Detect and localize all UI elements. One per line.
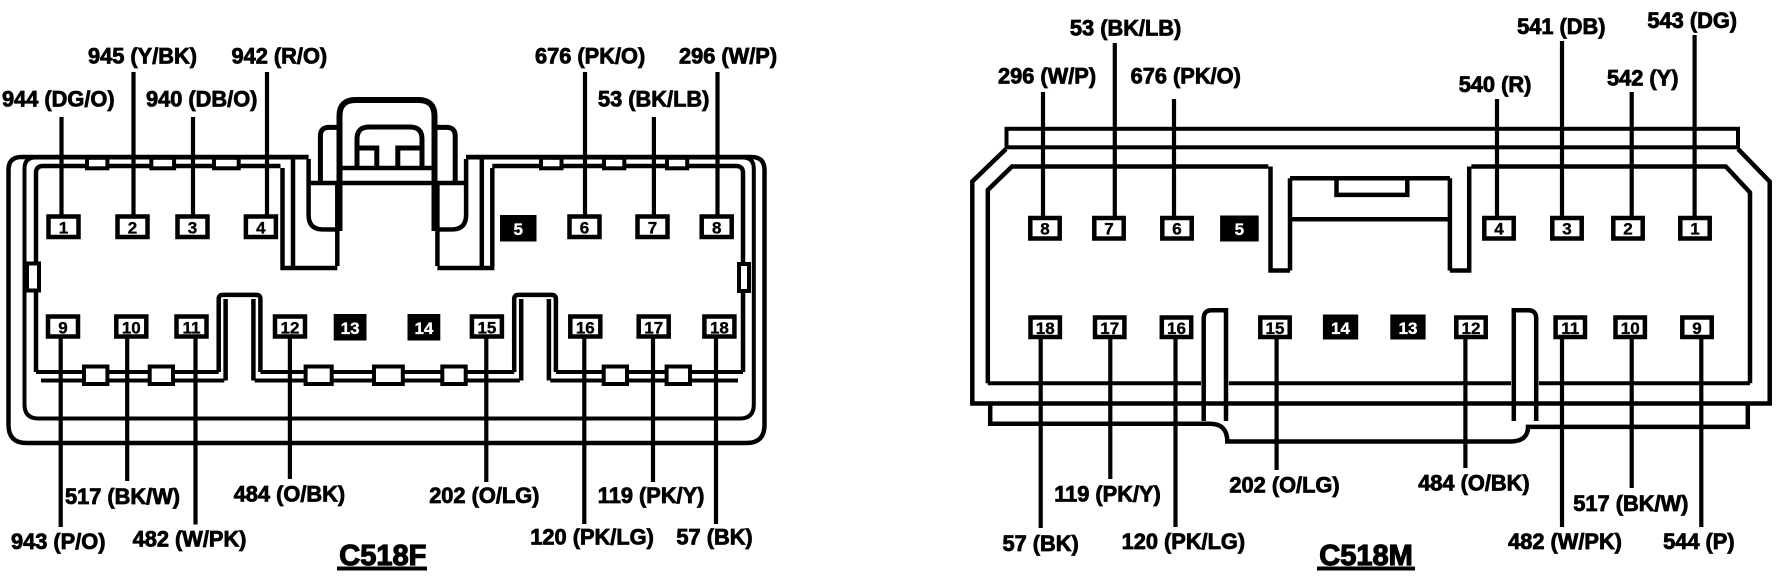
svg-text:14: 14	[414, 319, 433, 338]
svg-text:16: 16	[576, 319, 595, 338]
C518F pin 12	[275, 317, 305, 338]
svg-text:120 (PK/LG): 120 (PK/LG)	[530, 525, 654, 550]
C518F latch lower base line	[311, 181, 465, 186]
svg-text:1: 1	[59, 219, 68, 238]
C518F cavity bottom lower line	[41, 379, 738, 383]
svg-text:540 (R): 540 (R)	[1459, 72, 1532, 97]
label 119 (PK/Y) right	[1054, 482, 1161, 507]
C518M pin 5 (plugged)	[1220, 216, 1259, 242]
label 944 (DG/O)	[2, 87, 115, 112]
C518F right latch channel	[437, 159, 494, 268]
svg-text:18: 18	[1036, 319, 1055, 338]
C518F pin 7	[638, 217, 668, 238]
svg-text:202 (O/LG): 202 (O/LG)	[1229, 473, 1339, 498]
svg-text:482 (W/PK): 482 (W/PK)	[1508, 529, 1622, 554]
C518F pin 5 (plugged)	[500, 215, 537, 242]
wire 53 to C518M pin 7	[1113, 43, 1117, 220]
svg-text:296 (W/P): 296 (W/P)	[679, 43, 777, 68]
svg-text:11: 11	[183, 319, 201, 338]
svg-text:2: 2	[128, 219, 137, 238]
wire 484 to C518F pin 12	[288, 335, 292, 479]
svg-text:17: 17	[644, 319, 663, 338]
label 57 (BK) right	[1003, 531, 1079, 556]
C518F pin 17	[639, 317, 669, 338]
C518F pin 4	[246, 217, 276, 238]
C518F pin 2	[118, 217, 148, 238]
svg-text:12: 12	[1462, 319, 1481, 338]
label 945 (Y/BK)	[88, 43, 197, 68]
svg-text:202 (O/LG): 202 (O/LG)	[429, 483, 539, 508]
wire 944 to C518F pin 1	[59, 117, 63, 218]
label 484 (O/BK) left	[234, 482, 345, 507]
label 544 (P)	[1663, 529, 1734, 554]
label 676 (PK/O) left	[535, 43, 645, 68]
C518F latch upper base line	[340, 166, 435, 171]
label 296 (W/P) right	[998, 63, 1096, 88]
wire 119 to C518F pin 17	[651, 335, 655, 482]
C518M pin 17	[1095, 318, 1124, 339]
C518F pin 14 (plugged)	[408, 314, 441, 341]
C518F pin 15	[472, 317, 502, 338]
C518F bottom tab 7	[667, 367, 690, 385]
svg-text:14: 14	[1331, 319, 1350, 338]
connector C518M top bar	[1007, 129, 1739, 148]
svg-text:53 (BK/LB): 53 (BK/LB)	[1070, 15, 1181, 40]
label 942 (R/O)	[232, 43, 328, 68]
svg-text:7: 7	[1104, 220, 1113, 239]
svg-text:3: 3	[188, 219, 197, 238]
wire 57 to C518F pin 18	[714, 335, 718, 524]
C518F pin 8	[702, 217, 732, 238]
C518M center keyway notch	[1337, 180, 1408, 195]
label 543 (DG)	[1647, 8, 1737, 33]
svg-text:484 (O/BK): 484 (O/BK)	[1418, 470, 1529, 495]
label 943 (P/O)	[11, 529, 106, 554]
svg-text:57 (BK): 57 (BK)	[1003, 531, 1079, 556]
connector C518F inner housing wall	[25, 158, 754, 419]
svg-text:544 (P): 544 (P)	[1663, 529, 1734, 554]
C518M pin 6	[1162, 218, 1191, 239]
wire 940 to C518F pin 3	[191, 117, 195, 218]
svg-text:3: 3	[1562, 220, 1571, 239]
svg-text:9: 9	[58, 319, 67, 338]
label 482 (W/PK) right	[1508, 529, 1622, 554]
svg-text:119 (PK/Y): 119 (PK/Y)	[1054, 482, 1161, 507]
svg-text:517 (BK/W): 517 (BK/W)	[65, 484, 180, 509]
wire 517 to C518M pin 10	[1630, 336, 1634, 488]
svg-text:8: 8	[712, 219, 721, 238]
wire 119 to C518M pin 17	[1108, 336, 1112, 479]
C518M pin 2	[1613, 218, 1642, 239]
wire 57 to C518M pin 18	[1039, 336, 1043, 528]
wire 296 to C518M pin 8	[1041, 92, 1045, 220]
C518F top tab 1	[87, 158, 107, 169]
label 540 (R)	[1459, 72, 1532, 97]
C518M pin 14 (plugged)	[1323, 315, 1358, 340]
label 940 (DB/O)	[146, 87, 257, 112]
svg-text:7: 7	[648, 219, 657, 238]
wire 53 to C518F pin 7	[652, 117, 656, 218]
svg-text:541 (DB): 541 (DB)	[1517, 14, 1605, 39]
C518M pin 4	[1484, 218, 1513, 239]
svg-text:542 (Y): 542 (Y)	[1607, 66, 1678, 91]
C518F top tab 4	[541, 158, 562, 169]
label 676 (PK/O) right	[1131, 63, 1241, 88]
svg-text:1: 1	[1690, 220, 1699, 239]
C518F latch key slot left	[357, 148, 377, 168]
connector C518M outer housing	[972, 149, 1769, 404]
svg-text:119 (PK/Y): 119 (PK/Y)	[598, 483, 705, 508]
C518F bottom tab 3	[306, 367, 332, 385]
C518M center keyway brim	[1290, 176, 1450, 181]
C518M pin 9	[1682, 318, 1711, 339]
C518M pin 10	[1616, 318, 1645, 339]
C518M pin 11	[1556, 318, 1585, 339]
label 202 (O/LG) right	[1229, 473, 1339, 498]
svg-text:4: 4	[256, 219, 266, 238]
wire 676 to C518M pin 6	[1172, 99, 1176, 220]
svg-text:10: 10	[1621, 319, 1640, 338]
C518F top tab 2	[151, 158, 174, 169]
C518F pin 6	[570, 217, 600, 238]
svg-text:13: 13	[1399, 319, 1418, 338]
C518F pin 11	[177, 317, 207, 338]
connector C518M inner housing wall left	[988, 167, 1269, 384]
wire 676 to C518F pin 6	[583, 72, 587, 218]
C518M bottom channel right	[1514, 310, 1536, 421]
C518F pin 10	[116, 317, 146, 338]
svg-text:943 (P/O): 943 (P/O)	[11, 529, 106, 554]
svg-text:945 (Y/BK): 945 (Y/BK)	[88, 43, 197, 68]
C518F bottom tab 5	[442, 367, 465, 385]
svg-text:15: 15	[477, 319, 496, 338]
C518M pin 18	[1031, 318, 1060, 339]
C518F latch key slot right	[398, 148, 422, 168]
C518F bottom tab 6	[604, 367, 627, 385]
svg-text:5: 5	[513, 220, 522, 239]
C518F pin 1	[49, 217, 79, 238]
connector name C518F	[337, 540, 427, 572]
svg-text:676 (PK/O): 676 (PK/O)	[535, 43, 645, 68]
C518M pin 13 (plugged)	[1390, 315, 1425, 340]
C518F latch right post	[435, 127, 456, 183]
C518F cavity outline top-right and right side	[492, 166, 743, 372]
C518F cavity outline left side and top-left	[36, 166, 281, 372]
svg-text:120 (PK/LG): 120 (PK/LG)	[1122, 529, 1246, 554]
C518F right side slot	[739, 264, 749, 291]
C518F left side slot	[27, 264, 39, 291]
label 53 (BK/LB) left	[598, 87, 709, 112]
svg-text:944 (DG/O): 944 (DG/O)	[2, 87, 115, 112]
C518F left latch channel	[280, 159, 337, 268]
label 517 (BK/W) right	[1573, 491, 1688, 516]
wire 942 to C518F pin 4	[265, 72, 269, 218]
svg-text:484 (O/BK): 484 (O/BK)	[234, 482, 345, 507]
svg-text:517 (BK/W): 517 (BK/W)	[1573, 491, 1688, 516]
C518F bottom channel right	[514, 295, 556, 381]
C518F pin 18	[704, 317, 734, 338]
svg-text:5: 5	[1235, 220, 1244, 239]
svg-text:53 (BK/LB): 53 (BK/LB)	[598, 87, 709, 112]
wire 517 to C518F pin 10	[125, 335, 129, 481]
C518M center keyway right wall	[1450, 167, 1472, 271]
label 296 (W/P) left	[679, 43, 777, 68]
wire 120 to C518F pin 16	[582, 335, 586, 524]
connector C518F outer housing	[9, 157, 765, 443]
C518M pin 1	[1680, 218, 1709, 239]
C518F top tab 3	[214, 158, 239, 169]
C518M bottom channel left	[1204, 310, 1226, 421]
label 119 (PK/Y) left	[598, 483, 705, 508]
wire 541 to C518M pin 3	[1560, 41, 1564, 220]
C518M pin 12	[1456, 318, 1485, 339]
svg-text:15: 15	[1266, 319, 1285, 338]
wire 482 to C518F pin 11	[193, 335, 197, 525]
wire 202 to C518F pin 15	[484, 335, 488, 482]
svg-text:940 (DB/O): 940 (DB/O)	[146, 87, 257, 112]
label 541 (DB)	[1517, 14, 1605, 39]
C518F pin 13 (plugged)	[334, 314, 367, 341]
C518F top tab 5	[604, 158, 624, 169]
C518M pin 8	[1030, 218, 1059, 239]
C518M pin 3	[1552, 218, 1581, 239]
C518F latch outer arch	[340, 100, 435, 231]
C518M center keyway left wall	[1268, 167, 1290, 271]
C518M bottom step profile	[990, 404, 1748, 442]
C518F pin 16	[570, 317, 600, 338]
svg-text:543 (DG): 543 (DG)	[1647, 8, 1737, 33]
C518F latch left post	[320, 127, 339, 183]
C518F pin 3	[178, 217, 208, 238]
label 517 (BK/W) left	[65, 484, 180, 509]
C518F pin 9	[48, 317, 78, 338]
C518F cavity bottom upper line	[36, 370, 743, 374]
C518M pin 15	[1260, 318, 1289, 339]
svg-text:8: 8	[1040, 220, 1049, 239]
label 120 (PK/LG) right	[1122, 529, 1246, 554]
svg-text:16: 16	[1167, 319, 1186, 338]
svg-text:13: 13	[341, 319, 360, 338]
wire 296 to C518F pin 8	[715, 72, 719, 218]
svg-text:57 (BK): 57 (BK)	[676, 525, 752, 550]
label 542 (Y)	[1607, 66, 1678, 91]
label 53 (BK/LB) right	[1070, 15, 1181, 40]
svg-text:4: 4	[1494, 220, 1504, 239]
svg-text:676 (PK/O): 676 (PK/O)	[1131, 63, 1241, 88]
svg-text:10: 10	[122, 319, 141, 338]
svg-text:17: 17	[1100, 319, 1119, 338]
C518M pin 7	[1094, 218, 1123, 239]
connector name C518M	[1317, 540, 1415, 572]
svg-text:2: 2	[1623, 220, 1632, 239]
wire 482 to C518M pin 11	[1560, 336, 1564, 527]
wire 943 to C518F pin 9	[59, 335, 63, 527]
label 120 (PK/LG) left	[530, 525, 654, 550]
svg-text:6: 6	[580, 219, 589, 238]
C518M pin 16	[1162, 318, 1191, 339]
C518F bottom tab 2	[150, 367, 173, 385]
svg-text:9: 9	[1692, 319, 1701, 338]
C518F bottom tab 4	[374, 367, 403, 385]
C518F latch inner arch	[357, 127, 422, 168]
C518M center keyway lower line	[1292, 217, 1448, 222]
svg-text:942 (R/O): 942 (R/O)	[232, 43, 328, 68]
wire 202 to C518M pin 15	[1274, 336, 1278, 470]
wire 542 to C518M pin 2	[1630, 92, 1634, 220]
label 482 (W/PK) left	[133, 527, 247, 552]
svg-text:11: 11	[1561, 319, 1579, 338]
wire 540 to C518M pin 4	[1495, 99, 1499, 220]
wire 945 to C518F pin 2	[131, 72, 135, 218]
wire 484 to C518M pin 12	[1463, 336, 1467, 468]
svg-text:12: 12	[281, 319, 300, 338]
svg-text:6: 6	[1172, 220, 1181, 239]
wire 543 to C518M pin 1	[1692, 35, 1696, 220]
label 202 (O/LG) left	[429, 483, 539, 508]
label 484 (O/BK) right	[1418, 470, 1529, 495]
svg-text:482 (W/PK): 482 (W/PK)	[133, 527, 247, 552]
C518F bottom tab 1	[84, 367, 107, 385]
C518M cavity bottom line	[988, 381, 1750, 385]
C518F top tab 6	[667, 158, 687, 169]
wire 544 to C518M pin 9	[1699, 336, 1703, 527]
svg-text:296 (W/P): 296 (W/P)	[998, 63, 1096, 88]
label 57 (BK) left	[676, 525, 752, 550]
wire 120 to C518M pin 16	[1173, 336, 1177, 527]
connector C518M inner housing wall right	[1471, 167, 1750, 384]
C518F bottom channel left	[219, 295, 261, 381]
svg-text:18: 18	[710, 319, 729, 338]
